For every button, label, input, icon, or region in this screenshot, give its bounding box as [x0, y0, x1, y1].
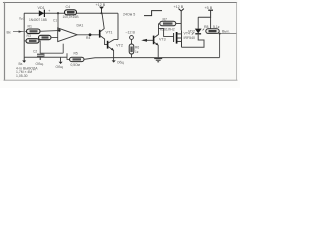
resistor R2 [39, 35, 52, 39]
svg-text:100,0×16В: 100,0×16В [63, 15, 80, 19]
transistor VT2 bar [107, 41, 109, 49]
svg-text:R7: R7 [163, 17, 168, 21]
wire to op-amp plus input [57, 13, 59, 29]
LED anode wire up [197, 17, 199, 28]
MOSFET VT4 gate bar [173, 33, 175, 42]
source loop wire [182, 35, 205, 48]
+12V terminal lead wire [101, 9, 103, 14]
terminal arrow below rail x60 [59, 57, 63, 64]
op-amp bottom pin wire [62, 44, 64, 54]
ground symbol [154, 59, 162, 62]
VT2 emitter with arrow [108, 47, 114, 58]
svg-text:VT3: VT3 [159, 38, 166, 42]
+5V terminal bar [208, 9, 213, 11]
svg-text:1,05-30: 1,05-30 [16, 74, 28, 78]
svg-text:Общ.: Общ. [36, 62, 44, 66]
top rail wire [24, 12, 118, 14]
svg-text:R4: R4 [86, 36, 90, 40]
svg-text:Общ: Общ [117, 61, 124, 65]
R7 right wire to +12 rail [176, 23, 181, 25]
svg-text:VD1: VD1 [38, 6, 45, 10]
resistor R5 [70, 57, 85, 61]
svg-text:VT1: VT1 [106, 31, 113, 35]
wire R1 to op-amp [40, 30, 58, 33]
svg-text:VT2: VT2 [116, 44, 123, 48]
op-amp output wire [77, 34, 99, 36]
resistor R3 [26, 39, 39, 43]
R6 to rail [131, 54, 133, 58]
MOSFET channel bar [176, 32, 178, 44]
svg-text:Пр1: Пр1 [19, 17, 25, 21]
transistor VT3 bar [153, 36, 155, 45]
wire node y53 [40, 52, 63, 54]
capacitor C4 body [65, 10, 77, 15]
svg-text:+12 В: +12 В [174, 5, 184, 9]
VT1 emitter [100, 36, 107, 45]
junction dot op-amp plus input [58, 29, 61, 32]
svg-text:R5: R5 [74, 51, 78, 55]
MOSFET source stub [177, 40, 181, 42]
output wire right [219, 33, 236, 35]
terminal arrow below rail x113 [112, 58, 116, 63]
svg-text:Вх.: Вх. [19, 62, 24, 66]
input wire with arrow [13, 31, 26, 33]
node junction at x58 [57, 12, 59, 14]
ground rail [24, 56, 67, 58]
gate link wire [158, 29, 173, 37]
svg-text:24Ом 5: 24Ом 5 [123, 12, 135, 16]
VD2 wing marks [192, 29, 204, 35]
MOSFET drain-source vertical [181, 30, 183, 47]
svg-text:+12 В: +12 В [96, 3, 106, 7]
signal flow arrow [141, 39, 153, 42]
node wire R3 R2 down [39, 41, 40, 53]
step waveform symbol [144, 11, 162, 16]
svg-text:IRF540: IRF540 [184, 36, 196, 40]
svg-text:R3: R3 [27, 34, 31, 38]
svg-text:+5 В: +5 В [205, 6, 213, 10]
svg-text:DA1: DA1 [77, 23, 84, 27]
R3 left stub to vertical [24, 40, 26, 42]
op-amp DA1 triangle [58, 28, 77, 42]
svg-text:C1: C1 [53, 18, 57, 22]
rail step to R5 [67, 53, 70, 59]
+12V terminal arrow [99, 7, 104, 10]
svg-text:0,5Ом: 0,5Ом [71, 63, 81, 67]
svg-text:К561ЛН2: К561ЛН2 [160, 27, 175, 31]
border frame [4, 3, 238, 81]
VT1 collector [100, 13, 104, 31]
resistor R7 [160, 21, 176, 26]
MOSFET body stub [177, 37, 181, 39]
terminal arrow below rail x24 [22, 57, 26, 63]
terminal mark x40 [39, 57, 41, 60]
rail corner vertical to VT2 collector [117, 13, 119, 39]
rail continues right [84, 58, 220, 60]
svg-text:C2: C2 [33, 49, 37, 53]
wire R2 to op-amp minus input [51, 37, 58, 39]
+12V right terminal [179, 9, 184, 11]
svg-text:C4: C4 [66, 5, 71, 9]
svg-text:1к: 1к [135, 50, 139, 54]
left vertical wire [23, 13, 25, 57]
output terminal circle [130, 36, 134, 40]
optocoupler body U2 [206, 29, 219, 34]
junction at rail x101 [101, 12, 103, 14]
junction at x219 [219, 33, 221, 35]
svg-text:R1: R1 [28, 24, 33, 28]
svg-text:R6: R6 [135, 45, 139, 49]
+12V right vertical wire [180, 11, 182, 31]
svg-text:Вх: Вх [7, 30, 11, 34]
MOSFET drain stub [177, 33, 181, 35]
capacitor C2 plates [37, 54, 44, 56]
svg-text:Вых.: Вых. [222, 30, 230, 34]
svg-text:Общ: Общ [56, 65, 63, 69]
VT3 emitter with arrow [154, 42, 158, 57]
junction dot on output [89, 33, 92, 36]
transistor VT1 bar [99, 30, 101, 38]
short vertical x44 [43, 53, 45, 57]
VT3 collector [154, 24, 160, 38]
VT2 collector [108, 40, 118, 43]
svg-text:–12 В: –12 В [126, 30, 136, 34]
resistor R1 [27, 29, 41, 34]
vertical down to rail right [219, 34, 221, 58]
diode VD1 [39, 10, 45, 17]
svg-text:1N4007 16В: 1N4007 16В [29, 18, 47, 22]
LED diode VD2 [195, 29, 202, 34]
wire +5V down to opto [210, 17, 212, 28]
svg-text:+: + [48, 8, 51, 13]
wire circle to R6 [131, 39, 133, 44]
+5V wire down and left [198, 10, 210, 17]
svg-text:VD2: VD2 [188, 30, 195, 34]
resistor R6 vertical [129, 44, 134, 54]
